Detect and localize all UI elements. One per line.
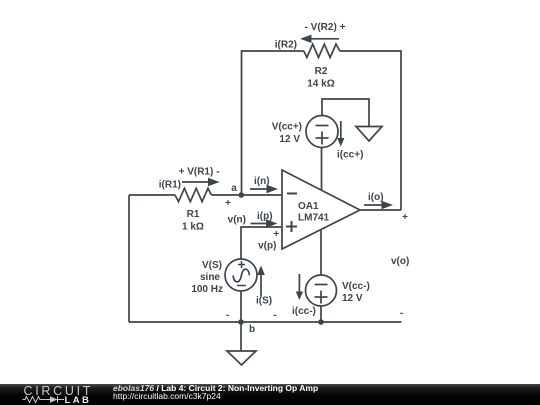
svg-text:sine: sine: [200, 272, 220, 283]
current arrow i(R1): [159, 178, 220, 191]
wire V(S) to bottom rail: [240, 291, 242, 322]
svg-text:+: +: [402, 212, 408, 223]
source V(S) sine: [225, 259, 257, 291]
current arrow i(cc+): [337, 121, 363, 161]
svg-text:v(o): v(o): [391, 256, 409, 267]
wire bottom rail: [129, 321, 402, 323]
wire op-amp output: [360, 209, 401, 211]
node b: [238, 319, 255, 335]
wire node b to ground: [240, 322, 242, 351]
svg-text:LM741: LM741: [298, 213, 330, 224]
resistor R1: [175, 188, 211, 201]
svg-text:100 Hz: 100 Hz: [191, 284, 223, 295]
svg-text:R1: R1: [187, 209, 200, 220]
wire top-left: R2 left lead + feedback vertical to node a: [242, 51, 304, 195]
op-amp name labels: [298, 201, 330, 224]
current arrow i(n): [250, 176, 278, 193]
svg-text:i(cc+): i(cc+): [337, 150, 363, 161]
current arrow i(p): [251, 211, 278, 228]
label V(S) value: [191, 260, 223, 295]
svg-text:1 kΩ: 1 kΩ: [182, 222, 204, 233]
minus polarity marks: [226, 308, 403, 321]
current arrow i(cc-): [292, 274, 316, 317]
source V(cc-): [306, 275, 337, 306]
source V(cc+): [306, 116, 338, 148]
svg-text:14 kΩ: 14 kΩ: [307, 79, 334, 90]
svg-text:i(p): i(p): [257, 211, 273, 222]
svg-text:OA1: OA1: [298, 201, 319, 212]
junction V(cc-) bottom: [318, 319, 324, 325]
svg-text:R2: R2: [315, 66, 328, 77]
wire V(cc-) to bottom rail: [320, 306, 322, 322]
op-amp minus input symbol: [287, 193, 297, 195]
svg-text:12 V: 12 V: [342, 293, 363, 304]
current arrow i(R2): [275, 35, 339, 51]
label R1 value: [182, 209, 204, 233]
svg-text:-: -: [273, 310, 276, 321]
svg-text:+: +: [273, 229, 279, 240]
label V(cc-) value: [342, 281, 370, 304]
label v(o) +: [391, 212, 409, 267]
svg-text:a: a: [231, 183, 237, 194]
wire V(cc+) to ground: [322, 99, 369, 127]
svg-text:-: -: [400, 308, 403, 319]
op-amp OA1 triangle: [282, 170, 360, 249]
svg-text:LAB: LAB: [65, 395, 92, 405]
svg-text:V(cc+): V(cc+): [272, 122, 302, 133]
svg-text:- V(R2) +: - V(R2) +: [305, 22, 346, 33]
wire top-right: R2 right lead + right vertical down to output: [340, 51, 401, 210]
svg-text:i(R1): i(R1): [159, 180, 181, 191]
svg-text:+ V(R1) -: + V(R1) -: [179, 167, 220, 178]
ground (node b): [227, 351, 256, 365]
svg-text:b: b: [249, 324, 255, 335]
svg-text:v(p): v(p): [258, 241, 276, 252]
url text: [113, 392, 221, 401]
svg-text:+: +: [225, 198, 231, 209]
wire left vertical: [128, 195, 130, 322]
current arrow i(o): [364, 192, 393, 209]
svg-text:i(o): i(o): [368, 192, 384, 203]
CircuitLab logo: [0, 384, 100, 405]
svg-text:i(R2): i(R2): [275, 40, 297, 51]
label R2 value: [307, 66, 334, 90]
resistor R2: [304, 44, 340, 57]
svg-text:i(S): i(S): [256, 296, 272, 307]
wire noninverting input to V(S): [241, 227, 282, 259]
svg-text:v(n): v(n): [228, 215, 246, 226]
svg-text:12 V: 12 V: [279, 134, 300, 145]
wire op-amp top power pin: [321, 148, 323, 191]
svg-text:V(S): V(S): [202, 260, 222, 271]
ground (V(cc+)): [356, 127, 382, 142]
wire op-amp bottom power pin: [320, 229, 322, 275]
node a: [225, 183, 244, 209]
current arrow i(S): [256, 266, 272, 307]
svg-text:V(cc-): V(cc-): [342, 281, 370, 292]
wire R1 to op-amp inverting input: [211, 194, 282, 196]
title text: [113, 384, 318, 393]
svg-text:i(cc-): i(cc-): [292, 306, 316, 317]
label V(cc+) value: [272, 122, 302, 146]
svg-text:i(n): i(n): [254, 176, 270, 187]
wire R1 row left lead: [129, 194, 175, 196]
svg-text:-: -: [226, 310, 229, 321]
label v(p) +: [258, 229, 279, 252]
footer bar: [0, 384, 540, 405]
op-amp plus input symbol: [286, 221, 297, 232]
